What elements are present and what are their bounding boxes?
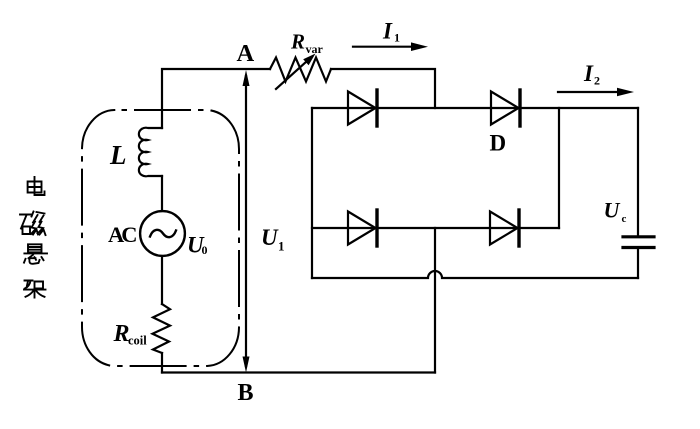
Rvar arrowhead xyxy=(303,54,315,66)
resistor Rcoil xyxy=(153,304,171,353)
bridge top rail xyxy=(312,107,638,109)
svg-text:0: 0 xyxy=(202,243,208,257)
I2 arrowhead xyxy=(617,88,634,97)
svg-text:B: B xyxy=(238,380,254,406)
capacitor Uc plates xyxy=(623,235,654,238)
wire AC source to Rcoil xyxy=(161,256,163,304)
I1 arrowhead xyxy=(411,42,428,51)
inductor L xyxy=(139,128,162,177)
svg-text:2: 2 xyxy=(594,74,600,88)
chinese label xuan (suspend) xyxy=(24,244,47,264)
U1 measurement arrow shaft xyxy=(245,76,247,366)
svg-text:I: I xyxy=(583,61,594,86)
I1 current arrow shaft xyxy=(353,46,414,48)
diode D1 top-left xyxy=(348,90,377,126)
wire Rcoil to bottom xyxy=(161,353,163,373)
bridge dc- bottom rail with hop xyxy=(312,271,638,278)
U1 arrowhead up at node A xyxy=(243,70,250,86)
chinese label jia (frame) xyxy=(24,281,46,298)
bridge left edge xyxy=(311,108,313,278)
bridge right edge xyxy=(558,108,560,228)
chinese label ci (magnetic) xyxy=(20,212,46,236)
AC source U0 circle xyxy=(140,211,185,256)
AC source sine tilde xyxy=(150,230,176,237)
U1 arrowhead down at node B xyxy=(243,357,250,373)
svg-text:R: R xyxy=(113,321,130,347)
bridge bottom diode rail xyxy=(312,227,559,229)
svg-text:var: var xyxy=(306,42,324,56)
svg-text:AC: AC xyxy=(108,222,136,247)
capacitor branch wire top xyxy=(637,108,639,235)
svg-text:D: D xyxy=(490,131,507,156)
svg-text:U: U xyxy=(261,225,279,250)
wire bottom from source to bridge ac2 xyxy=(162,371,435,373)
Rvar adjustment arrow xyxy=(276,61,307,89)
svg-text:1: 1 xyxy=(278,239,285,254)
svg-text:1: 1 xyxy=(394,31,400,45)
svg-text:L: L xyxy=(109,140,127,170)
svg-text:coil: coil xyxy=(128,334,147,348)
wire vertical ac2 riser xyxy=(434,228,436,373)
capacitor branch wire bottom xyxy=(637,249,639,278)
I2 current arrow shaft xyxy=(558,91,620,93)
wire top from source to A to Rvar xyxy=(162,69,270,128)
svg-text:I: I xyxy=(382,19,393,44)
diode D4 bottom-right xyxy=(490,210,519,246)
chinese label dian (electric) xyxy=(28,177,45,195)
enclosure dash-dot box xyxy=(82,110,239,366)
svg-text:R: R xyxy=(290,30,305,54)
wire inductor to AC source xyxy=(161,176,163,211)
svg-text:U: U xyxy=(604,198,621,223)
diode D3 bottom-left xyxy=(348,210,377,246)
svg-text:c: c xyxy=(622,213,627,225)
diode D2 top-right xyxy=(491,90,520,126)
resistor Rvar zigzag xyxy=(270,58,331,82)
wire top from Rvar to bridge ac1 xyxy=(331,69,435,108)
svg-text:A: A xyxy=(237,40,255,67)
